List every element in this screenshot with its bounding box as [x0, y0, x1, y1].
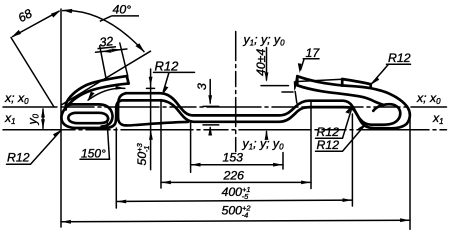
dimension 500 line — [61, 220, 410, 222]
svg-text:50+3-1: 50+3-1 — [135, 142, 151, 165]
axis x;x0 (horizontal dash-dot centerline) — [3, 106, 447, 108]
svg-text:226: 226 — [223, 169, 245, 183]
svg-text:3: 3 — [195, 83, 209, 90]
arrowheads R12 lower-right leaders — [345, 105, 353, 114]
arrowheads 150 arc — [88, 92, 95, 101]
axis y1;y;y0 (vertical dash-dot centerline) — [235, 32, 237, 152]
arrowhead R12 upper-right leader — [371, 77, 379, 85]
svg-text:y1; y; y0: y1; y; y0 — [242, 137, 285, 152]
dimension 226 line — [161, 181, 311, 183]
svg-text:153: 153 — [223, 151, 244, 165]
dimension 32 line — [96, 49, 127, 52]
dimension 68 extension line — [11, 38, 54, 108]
left curl tube inner loop — [68, 113, 108, 123]
left curl tube outer top — [66, 104, 112, 126]
arrowheads 68 dim — [51, 10, 61, 17]
dimension 3 assembly — [203, 80, 219, 134]
arrowheads 40 arc — [62, 9, 72, 13]
svg-text:150°: 150° — [81, 147, 106, 161]
svg-text:40±4: 40±4 — [254, 49, 268, 76]
right flange free end cut — [296, 76, 299, 85]
arrowheads 32 — [101, 49, 111, 53]
arrowheads 50 dim — [149, 77, 153, 87]
dimension 17 leader and extension — [295, 59, 342, 82]
leader R12 upper-left — [154, 72, 195, 91]
dimension 32 extension lines — [100, 43, 128, 80]
arrowheads 500 — [61, 220, 71, 224]
profile outer contour (bottom surface left, top surface right) — [61, 76, 409, 128]
leaders R12 lower-right pair — [316, 106, 366, 152]
profile right flange underside line — [297, 85, 383, 105]
dimension 400 extension lines — [116, 114, 352, 208]
dimension 153 line — [191, 164, 283, 166]
svg-text:y1; y; y0: y1; y; y0 — [243, 33, 286, 48]
leader 40deg — [100, 16, 112, 21]
arrowheads 226 — [161, 181, 171, 185]
dimension 40+-4 — [261, 48, 297, 139]
vertical construction line through left end (x=61) — [60, 9, 62, 227]
svg-text:500+2-4: 500+2-4 — [222, 204, 252, 220]
arrowheads y0 — [41, 108, 45, 118]
leader 150 — [80, 123, 110, 160]
leader R12 upper-right — [372, 64, 411, 83]
svg-text:40°: 40° — [113, 3, 132, 17]
arrowhead R12 lower-left leader — [53, 130, 62, 138]
svg-text:R12: R12 — [317, 125, 340, 139]
svg-text:R12: R12 — [317, 138, 340, 152]
svg-text:17: 17 — [306, 46, 321, 60]
dimension 153 extension lines — [191, 123, 283, 173]
svg-text:R12: R12 — [155, 58, 180, 73]
arrowheads 3 dim — [208, 95, 212, 105]
dimension 50 line — [147, 69, 155, 170]
arrowheads 400 — [117, 200, 127, 204]
dimension y0 line — [42, 109, 44, 128]
arrowheads 17 — [298, 63, 302, 73]
svg-text:400+1-5: 400+1-5 — [222, 185, 251, 201]
leader R12 lower-left — [7, 131, 61, 165]
right seat strip (short strip resting on flange) — [342, 79, 371, 87]
left wall inner line and lower-left ledge — [118, 93, 188, 125]
profile inner contour (top surface left, bottom surface right) — [66, 76, 127, 109]
axis x1 (horizontal dash-dot centerline) — [3, 129, 447, 131]
profile upper-top / shoulder-top / inner-bottom line — [126, 93, 400, 125]
dimension 226 extension lines — [161, 100, 311, 189]
svg-text:R12: R12 — [388, 51, 411, 65]
svg-text:R12: R12 — [7, 151, 30, 165]
angle 150 arc — [88, 88, 125, 100]
dimension 400 line — [116, 200, 352, 201]
arrowhead R12 upper-left leader — [162, 86, 168, 95]
arrowheads 153 — [191, 163, 201, 167]
dimension 500 right extension line — [409, 116, 411, 229]
arrowhead 40+-4 — [265, 72, 269, 82]
angle 40 second side (diagonal) — [62, 51, 151, 105]
dimension 68 line — [13, 11, 60, 36]
left flange tip end cut — [127, 76, 129, 83]
angle 40 arc — [63, 11, 144, 52]
